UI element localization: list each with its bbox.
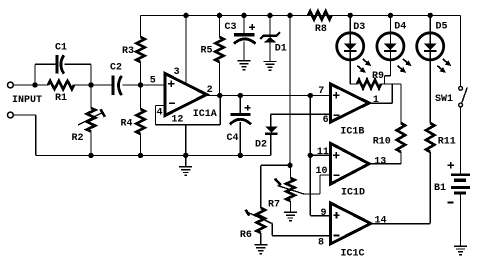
wire D4 cathode lead <box>385 15 391 84</box>
junction R1 / C1 right / R2 <box>88 82 93 87</box>
wire input to R1 <box>13 84 48 86</box>
wire R3 bottom lead <box>140 62 142 85</box>
wire R3 top lead <box>140 15 142 37</box>
svg-text:R8: R8 <box>315 24 327 35</box>
wire R6 R7 branch <box>261 164 291 166</box>
svg-text:R6: R6 <box>240 230 252 241</box>
svg-text:C1: C1 <box>55 43 67 54</box>
svg-text:7: 7 <box>318 86 324 97</box>
wire R11 bottom lead <box>429 152 431 224</box>
wire C3 top lead <box>243 15 245 33</box>
node INPUT label <box>12 95 42 106</box>
svg-text:R5: R5 <box>200 46 212 57</box>
pin 6 label IC1B <box>323 115 329 126</box>
wire D5 cathode lead to R11 <box>429 15 431 123</box>
pin 7 label IC1B <box>318 86 324 97</box>
svg-text:D1: D1 <box>275 44 287 55</box>
resistor R3 <box>136 37 144 62</box>
wire R5 bottom lead <box>219 62 221 96</box>
svg-text:8: 8 <box>318 237 324 248</box>
wire riser x310 from IC1A output <box>309 96 311 216</box>
label B1 <box>434 183 446 194</box>
svg-text:R7: R7 <box>268 199 280 210</box>
label C2 <box>110 63 122 74</box>
junction top bus / D1 <box>267 13 272 18</box>
junction top bus / riser x290 <box>287 13 292 18</box>
wire C4 bottom lead <box>239 122 241 155</box>
svg-text:R4: R4 <box>120 119 132 130</box>
svg-text:IC1A: IC1A <box>193 109 217 120</box>
wire R4 bottom lead <box>140 134 142 155</box>
wire R5 top lead <box>219 15 221 37</box>
wire R1 to C2 <box>74 84 112 86</box>
pin 9 label IC1C <box>320 208 326 219</box>
svg-text:2: 2 <box>207 85 213 96</box>
junction top bus / D5 <box>428 13 433 18</box>
input terminal lower <box>7 112 13 118</box>
svg-text:D2: D2 <box>255 140 267 151</box>
svg-text:R3: R3 <box>122 46 134 57</box>
svg-text:IC1D: IC1D <box>341 188 365 199</box>
pin 8 label IC1C <box>318 237 324 248</box>
pin 4 label IC1A <box>156 107 162 118</box>
junction top bus / D4 <box>388 13 393 18</box>
battery plus label <box>448 162 454 168</box>
wire D2 top corner to IC1B pin 6 <box>271 114 331 126</box>
label D4 <box>394 22 406 33</box>
LED D4 <box>377 33 412 73</box>
svg-text:D5: D5 <box>435 22 447 33</box>
label R1 <box>55 93 67 104</box>
wire IC1C pin 9 <box>310 215 330 217</box>
wire D3 cathode lead <box>349 15 351 84</box>
LED D5 <box>417 33 452 73</box>
resistor R1 <box>48 81 74 89</box>
label IC1D <box>341 188 365 199</box>
pin 1 label IC1B <box>373 95 379 106</box>
input terminal upper <box>7 82 13 88</box>
wire R7 top lead <box>289 165 291 178</box>
svg-text:1: 1 <box>373 95 379 106</box>
label R8 <box>315 24 327 35</box>
label R3 <box>122 46 134 57</box>
svg-text:IC1C: IC1C <box>340 249 364 260</box>
capacitor C2 <box>112 76 122 96</box>
junction bus / R4 <box>138 153 143 158</box>
wire R10 top lead <box>400 84 402 123</box>
wire IC1A box to ground <box>185 125 187 166</box>
pin 10 label IC1D <box>315 166 327 177</box>
wire D2 bottom lead <box>270 135 272 156</box>
wire C1 right riser <box>90 64 92 85</box>
label IC1A <box>193 109 217 120</box>
svg-text:R1: R1 <box>55 93 67 104</box>
resistor R7 (trimmer) <box>275 178 304 201</box>
label D3 <box>353 22 365 33</box>
svg-text:R9: R9 <box>372 71 384 82</box>
wire IC1D output to R10 <box>369 152 401 164</box>
resistor R6 (trimmer) <box>246 208 272 233</box>
resistor R11 <box>426 123 434 152</box>
resistor R8 <box>308 11 331 19</box>
wire IC1D pin 11 <box>310 154 330 156</box>
svg-text:13: 13 <box>374 156 386 167</box>
svg-text:C2: C2 <box>110 63 122 74</box>
junction bus / ground <box>183 153 188 158</box>
wire top supply bus <box>141 14 461 16</box>
label R6 <box>240 230 252 241</box>
ground under C3 <box>238 60 251 70</box>
resistor R10 <box>397 123 405 152</box>
label R2 <box>71 133 83 144</box>
wire D1 bottom lead <box>269 42 271 61</box>
wire R6 wiper to IC1C pin 8 <box>247 212 331 236</box>
svg-text:R10: R10 <box>373 136 391 147</box>
op-amp IC1D <box>331 143 370 184</box>
battery B1 <box>451 173 470 194</box>
svg-text:R2: R2 <box>71 133 83 144</box>
junction top bus / C3 <box>241 13 246 18</box>
pin 12 label IC1A <box>171 115 183 126</box>
wire C4 top lead <box>239 96 241 114</box>
junction top bus / R5 <box>217 13 222 18</box>
wire SW1 top lead <box>459 15 461 86</box>
capacitor C1 <box>55 55 64 74</box>
wire R9 node <box>385 83 401 85</box>
label R9 <box>372 71 384 82</box>
svg-text:IC1B: IC1B <box>340 127 364 138</box>
label R11 <box>438 136 456 147</box>
pin 11 label IC1D <box>317 147 329 158</box>
IC1A pins 4 and 12 box <box>155 96 220 125</box>
zener diode D1 <box>260 32 280 42</box>
svg-text:12: 12 <box>171 115 183 126</box>
label C4 <box>226 133 238 144</box>
resistor R4 <box>136 109 144 134</box>
LED D3 <box>337 33 372 73</box>
label IC1C <box>340 249 364 260</box>
svg-text:INPUT: INPUT <box>12 95 42 106</box>
wire lower input terminal <box>13 115 36 155</box>
pin 3 label IC1A <box>174 67 180 78</box>
resistor R5 <box>215 37 223 62</box>
junction top bus / pin3 riser <box>183 13 188 18</box>
label C4 plus <box>245 105 251 111</box>
wire R9 right lead <box>381 83 385 85</box>
label R10 <box>373 136 391 147</box>
wire R9 left lead <box>350 83 357 85</box>
ground on bottom bus <box>179 166 192 176</box>
pin 14 label IC1C <box>374 216 386 227</box>
svg-text:14: 14 <box>374 216 386 227</box>
ground under R6 <box>254 244 267 254</box>
capacitor C4 (electrolytic) <box>230 113 251 124</box>
svg-text:9: 9 <box>320 208 326 219</box>
capacitor C3 (electrolytic) <box>234 33 256 43</box>
wire C1 parallel branch top <box>35 63 91 65</box>
wire +V riser x290 <box>289 15 291 165</box>
label R5 <box>200 46 212 57</box>
wire C3 bottom lead <box>243 42 245 61</box>
svg-text:11: 11 <box>317 147 329 158</box>
junction bus / R2 <box>88 153 93 158</box>
label C3 <box>224 22 236 33</box>
battery minus label <box>448 202 454 204</box>
ground under R7 <box>284 212 297 222</box>
svg-text:SW1: SW1 <box>435 94 453 105</box>
pin 5 label IC1A <box>150 75 156 86</box>
svg-text:10: 10 <box>315 166 327 177</box>
wire R2 bottom lead <box>90 132 92 156</box>
op-amp IC1B <box>331 84 370 122</box>
switch SW1 <box>459 86 468 107</box>
junction input / C1 left <box>32 82 37 87</box>
wire D1 top lead <box>269 15 271 35</box>
label SW1 <box>435 94 453 105</box>
junction riser x310 / pin 11 <box>308 153 313 158</box>
svg-text:3: 3 <box>174 67 180 78</box>
pin 13 label IC1D <box>374 156 386 167</box>
label R7 <box>268 199 280 210</box>
label R4 <box>120 119 132 130</box>
ground under D1 <box>264 61 277 71</box>
junction top bus / D3 <box>348 13 353 18</box>
pin 2 label IC1A <box>207 85 213 96</box>
label C1 <box>55 43 67 54</box>
svg-text:R11: R11 <box>438 136 456 147</box>
diode D2 <box>265 127 277 135</box>
wire bottom ground bus <box>36 154 271 156</box>
wire IC1A pin 3 riser <box>185 15 187 85</box>
label C3 plus <box>249 24 255 30</box>
wire R2 top lead <box>90 85 92 108</box>
wire R6 bottom lead <box>260 233 262 244</box>
wire battery to ground <box>460 195 462 246</box>
wire R7 wiper to IC1D pin 10 <box>278 175 331 194</box>
op-amp IC1C <box>331 203 371 244</box>
wire IC1A output <box>207 95 331 97</box>
svg-text:C4: C4 <box>226 133 238 144</box>
resistor R9 <box>357 80 381 88</box>
svg-text:4: 4 <box>156 107 162 118</box>
junction riser x290 / R6 R7 <box>287 163 292 168</box>
wire IC1C output pin 14 <box>371 223 430 225</box>
svg-text:D4: D4 <box>394 22 406 33</box>
wire C2 to IC1A pin 5 <box>123 84 165 86</box>
resistor R2 (trimmer) <box>78 108 105 132</box>
junction output / C4 <box>238 93 243 98</box>
label D1 <box>275 44 287 55</box>
wire R4 top lead <box>140 85 142 109</box>
wire C1 left riser <box>34 64 36 85</box>
label D5 <box>435 22 447 33</box>
ground under B1 <box>454 245 467 255</box>
junction C2 / R3 / R4 <box>138 82 143 87</box>
svg-text:C3: C3 <box>224 22 236 33</box>
wire IC1B output pin 1 <box>369 84 392 103</box>
label D2 <box>255 140 267 151</box>
junction bus / C4 bottom <box>238 153 243 158</box>
wire R7 bottom lead <box>289 201 291 211</box>
junction output / riser x310 <box>308 93 313 98</box>
junction output / R5 bottom <box>217 93 222 98</box>
wire SW1 to battery <box>460 107 462 173</box>
svg-text:6: 6 <box>323 115 329 126</box>
svg-text:B1: B1 <box>434 183 446 194</box>
op-amp IC1A <box>165 74 207 116</box>
wire R6 top lead <box>260 165 262 208</box>
svg-text:5: 5 <box>150 75 156 86</box>
svg-text:D3: D3 <box>353 22 365 33</box>
label IC1B <box>340 127 364 138</box>
